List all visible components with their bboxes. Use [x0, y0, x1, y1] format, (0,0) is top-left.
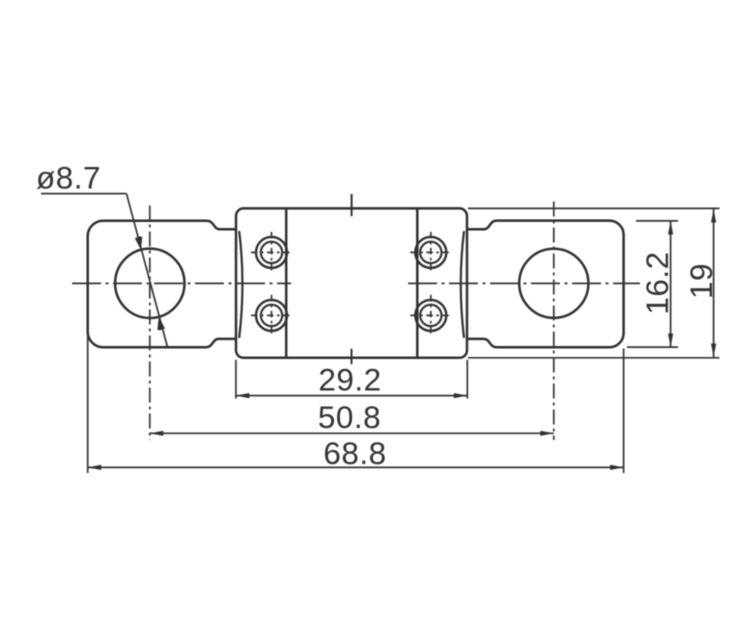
- screw bolt top-right: [415, 237, 446, 268]
- left tab outline: [88, 221, 236, 348]
- left hole vertical centerline: [149, 206, 151, 441]
- horizontal main centerline: [72, 282, 640, 284]
- screw bolt top-left: [256, 237, 287, 268]
- svg-text:50.8: 50.8: [318, 399, 381, 435]
- svg-text:19: 19: [683, 263, 719, 299]
- body right cap arc: [461, 232, 464, 337]
- dim 19 extension lines: [468, 208, 720, 357]
- screw bolt bottom-right: [415, 300, 446, 331]
- dim 16.2 arrowheads: [668, 221, 673, 347]
- svg-text:ø8.7: ø8.7: [36, 160, 101, 196]
- dia 8.7 leader line: [41, 194, 167, 347]
- svg-text:29.2: 29.2: [318, 362, 381, 398]
- dim 29.2 arrowheads: [236, 393, 467, 398]
- dim 68.8 line: [88, 466, 624, 468]
- screw centermark crosses: [251, 232, 451, 336]
- left tab mounting hole: [115, 249, 184, 318]
- svg-text:68.8: 68.8: [323, 435, 386, 471]
- dim 19 arrowheads: [711, 209, 716, 357]
- dim 68.8 arrowheads: [88, 465, 624, 470]
- top center tick: [351, 194, 353, 216]
- dim 19 line: [713, 209, 715, 357]
- body left cap divider: [285, 209, 288, 357]
- dim 29.2 extension lines: [236, 360, 467, 399]
- dim 29.2 line: [236, 395, 467, 397]
- right tab mounting hole: [519, 249, 588, 318]
- dim 50.8 line: [150, 432, 554, 434]
- dim 16.2 extension lines: [627, 221, 678, 347]
- dim 16.2 line: [670, 221, 672, 347]
- dia 8.7 leader arrowheads: [135, 236, 165, 330]
- fuse body outline: [236, 208, 467, 357]
- dim 50.8 arrowheads: [150, 431, 554, 436]
- bottom center tick: [351, 349, 353, 364]
- right hole vertical centerline: [553, 202, 555, 441]
- svg-text:16.2: 16.2: [639, 251, 675, 314]
- body left cap arc: [239, 232, 242, 337]
- right tab outline: [467, 221, 624, 348]
- screw bolt bottom-left: [256, 300, 287, 331]
- body right cap divider: [416, 209, 419, 357]
- dim 68.8 extension lines: [88, 336, 624, 473]
